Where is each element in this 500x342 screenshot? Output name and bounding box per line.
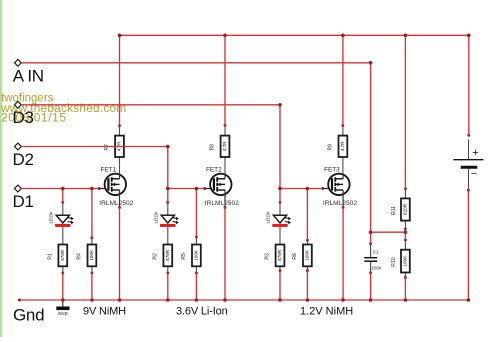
svg-text:LED#: LED# — [48, 211, 54, 223]
junction rail-R11 — [404, 34, 408, 38]
wire R2 to ground — [167, 273, 169, 300]
label D2 — [13, 150, 34, 169]
pin connector A IN — [15, 59, 22, 66]
svg-text:9V NiMH: 9V NiMH — [83, 305, 126, 317]
junction D1-LED1 — [61, 187, 65, 191]
svg-text:R1: R1 — [48, 253, 54, 260]
wire D1 horizontal to FET1 gate — [21, 188, 99, 190]
svg-text:470R: 470R — [60, 249, 65, 261]
svg-text:470R: 470R — [277, 249, 282, 261]
svg-text:R2: R2 — [153, 253, 159, 260]
LED LED2 — [153, 201, 178, 244]
svg-text:R8: R8 — [210, 144, 216, 151]
junction rail-R7 — [118, 34, 122, 38]
label Gnd — [13, 305, 44, 324]
pin connector D2 — [15, 143, 22, 150]
wire divider node horizontal — [371, 231, 406, 233]
LED LED3 — [266, 201, 291, 244]
transistor FET3 (IRLML2502) — [321, 166, 357, 209]
junction divider-C1 — [369, 230, 373, 234]
svg-text:+: + — [472, 147, 478, 159]
svg-text:FET1: FET1 — [101, 166, 117, 173]
wire R3 to ground — [279, 271, 281, 300]
wire C1 top stub — [370, 232, 372, 244]
svg-text:R3: R3 — [265, 253, 271, 260]
junction A IN corner — [369, 61, 373, 65]
junction ground at x=307.4 — [306, 298, 310, 302]
wire D3 horizontal — [21, 104, 280, 106]
junction ground at x=225.0 — [223, 298, 227, 302]
resistor R9 (4.7R) — [328, 124, 348, 173]
wire D2 row to FET2 gate — [168, 188, 205, 190]
junction D3 corner — [278, 103, 282, 107]
wire LED2 drop — [167, 189, 169, 203]
wire LED3 drop — [279, 189, 281, 203]
svg-text:R9: R9 — [328, 144, 334, 151]
svg-text:4.7R: 4.7R — [222, 141, 227, 151]
wire battery column from rail — [468, 35, 470, 135]
transistor FET1 (IRLML2502) — [98, 166, 134, 209]
junction D2-R5 — [195, 187, 199, 191]
svg-text:R6: R6 — [292, 253, 298, 260]
svg-text:2008/01/15: 2008/01/15 — [1, 111, 67, 125]
transistor FET2 (IRLML2502) — [203, 166, 239, 209]
junction D1-R4 — [90, 187, 94, 191]
wire battery minus to ground — [467, 190, 469, 300]
watermark line 1 — [1, 93, 54, 105]
svg-text:100K: 100K — [194, 249, 199, 261]
svg-text:R11: R11 — [391, 206, 397, 215]
resistor R3 (470R) — [265, 244, 285, 272]
svg-text:IRLML2502: IRLML2502 — [99, 200, 133, 207]
junction ground at x=119.5 — [118, 298, 122, 302]
junction ground at x=280.0 — [278, 298, 282, 302]
wire R1 to ground — [62, 273, 64, 300]
junction D2-LED2 — [166, 187, 170, 191]
resistor R5 (100K) — [181, 235, 201, 274]
wire LED1 drop — [62, 189, 64, 203]
label D3 — [13, 108, 34, 127]
wire R8 column from rail — [224, 35, 226, 125]
ground symbol GND — [56, 300, 69, 316]
wire FET1 source to ground — [119, 208, 121, 301]
svg-text:FET2: FET2 — [206, 166, 222, 173]
junction rail-battery corner — [467, 34, 471, 38]
resistor R2 (470R) — [153, 244, 173, 274]
caption 1.2V NiMH — [300, 305, 353, 317]
svg-text:LED#: LED# — [266, 211, 272, 223]
svg-text:R4: R4 — [77, 253, 83, 260]
svg-text:100K: 100K — [403, 255, 408, 267]
watermark line 2 — [0, 101, 126, 115]
wire R6 to ground — [306, 271, 308, 300]
junction ground at x=405.4 — [404, 298, 408, 302]
svg-text:C1: C1 — [373, 250, 379, 255]
svg-text:FET3: FET3 — [324, 166, 340, 173]
svg-text:IRLML2502: IRLML2502 — [205, 200, 239, 207]
battery B1 — [453, 134, 483, 192]
junction ground at x=468.4 — [467, 298, 471, 302]
junction divider-R10 — [404, 230, 408, 234]
wire R4 to ground — [91, 273, 93, 300]
svg-text:R7: R7 — [104, 144, 110, 151]
wire ground rail — [19, 299, 468, 301]
wire D3 row to FET3 gate — [280, 188, 323, 190]
resistor R1 (470R) — [48, 244, 68, 274]
wire R11 bottom stub — [404, 229, 406, 240]
svg-text:100K: 100K — [305, 249, 310, 261]
watermark line 3 — [1, 111, 67, 125]
junction ground at x=91.9 — [90, 298, 94, 302]
junction rail-R9 — [341, 34, 345, 38]
resistor R10 (100K) — [391, 238, 410, 278]
wire R11 column from rail — [404, 35, 406, 188]
svg-text:R10: R10 — [391, 257, 397, 266]
capacitor C1 (100n) — [364, 242, 381, 274]
svg-text:470R: 470R — [165, 249, 170, 261]
junction ground at x=167.8 — [166, 298, 170, 302]
svg-text:4.7R: 4.7R — [340, 141, 345, 151]
wire R9 column from rail — [342, 35, 344, 125]
wire FET3 source to ground — [342, 208, 344, 301]
pin connector D3 — [15, 101, 22, 108]
wire R4 drop — [91, 189, 93, 238]
svg-text:100K: 100K — [89, 249, 94, 261]
svg-text:A IN: A IN — [13, 66, 44, 85]
label A IN — [13, 66, 44, 85]
svg-text:D3: D3 — [13, 108, 34, 127]
svg-text:GND: GND — [58, 311, 68, 316]
junction rail-R8 — [223, 34, 227, 38]
wire R5 drop — [195, 189, 197, 237]
pin connector D1 — [15, 185, 22, 192]
svg-text:620R: 620R — [403, 203, 408, 215]
wire D3 vertical down — [279, 105, 281, 189]
wire C1 to ground — [370, 273, 372, 300]
junction D3-R6 — [306, 187, 310, 191]
resistor R11 (620R) — [391, 187, 410, 230]
wire R10 to ground — [404, 278, 406, 301]
svg-text:−: − — [471, 169, 477, 180]
svg-text:LED#: LED# — [153, 211, 159, 223]
wire R6 drop — [306, 189, 308, 241]
wire D2 horizontal — [21, 146, 168, 148]
junction D2 corner — [166, 145, 170, 149]
resistor R4 (100K) — [77, 236, 97, 274]
junction ground at x=370.6 — [369, 298, 373, 302]
svg-text:1.2V NiMH: 1.2V NiMH — [300, 305, 353, 317]
LED LED1 — [48, 201, 73, 244]
resistor R7 (4.7R) — [104, 124, 124, 173]
wire A IN horizontal — [21, 62, 370, 64]
label D1 — [13, 192, 34, 211]
wire A IN vertical down to divider — [370, 63, 372, 232]
svg-text:Gnd: Gnd — [13, 305, 44, 324]
svg-text:IRLML2502: IRLML2502 — [323, 200, 357, 207]
junction ground left end — [18, 299, 21, 302]
wire FET2 source to ground — [224, 208, 226, 301]
svg-text:100n: 100n — [371, 266, 382, 271]
wire R5 to ground — [195, 273, 197, 300]
junction ground at x=343.1 — [341, 298, 345, 302]
junction ground at x=62.8 — [61, 298, 65, 302]
junction D3-LED3 — [278, 187, 282, 191]
wire R7 column from rail — [119, 35, 121, 125]
resistor R6 (100K) — [292, 239, 312, 272]
wire top supply rail — [120, 34, 469, 36]
resistor R8 (4.7R) — [210, 124, 230, 174]
caption 9V NiMH — [83, 305, 126, 317]
svg-text:D1: D1 — [13, 192, 34, 211]
svg-text:R5: R5 — [181, 253, 187, 260]
wire D2 vertical down — [167, 147, 169, 189]
junction ground at x=196.4 — [195, 298, 199, 302]
svg-text:D2: D2 — [13, 150, 34, 169]
svg-text:3.6V Li-Ion: 3.6V Li-Ion — [176, 305, 228, 317]
caption 3.6V Li-Ion — [176, 305, 228, 317]
